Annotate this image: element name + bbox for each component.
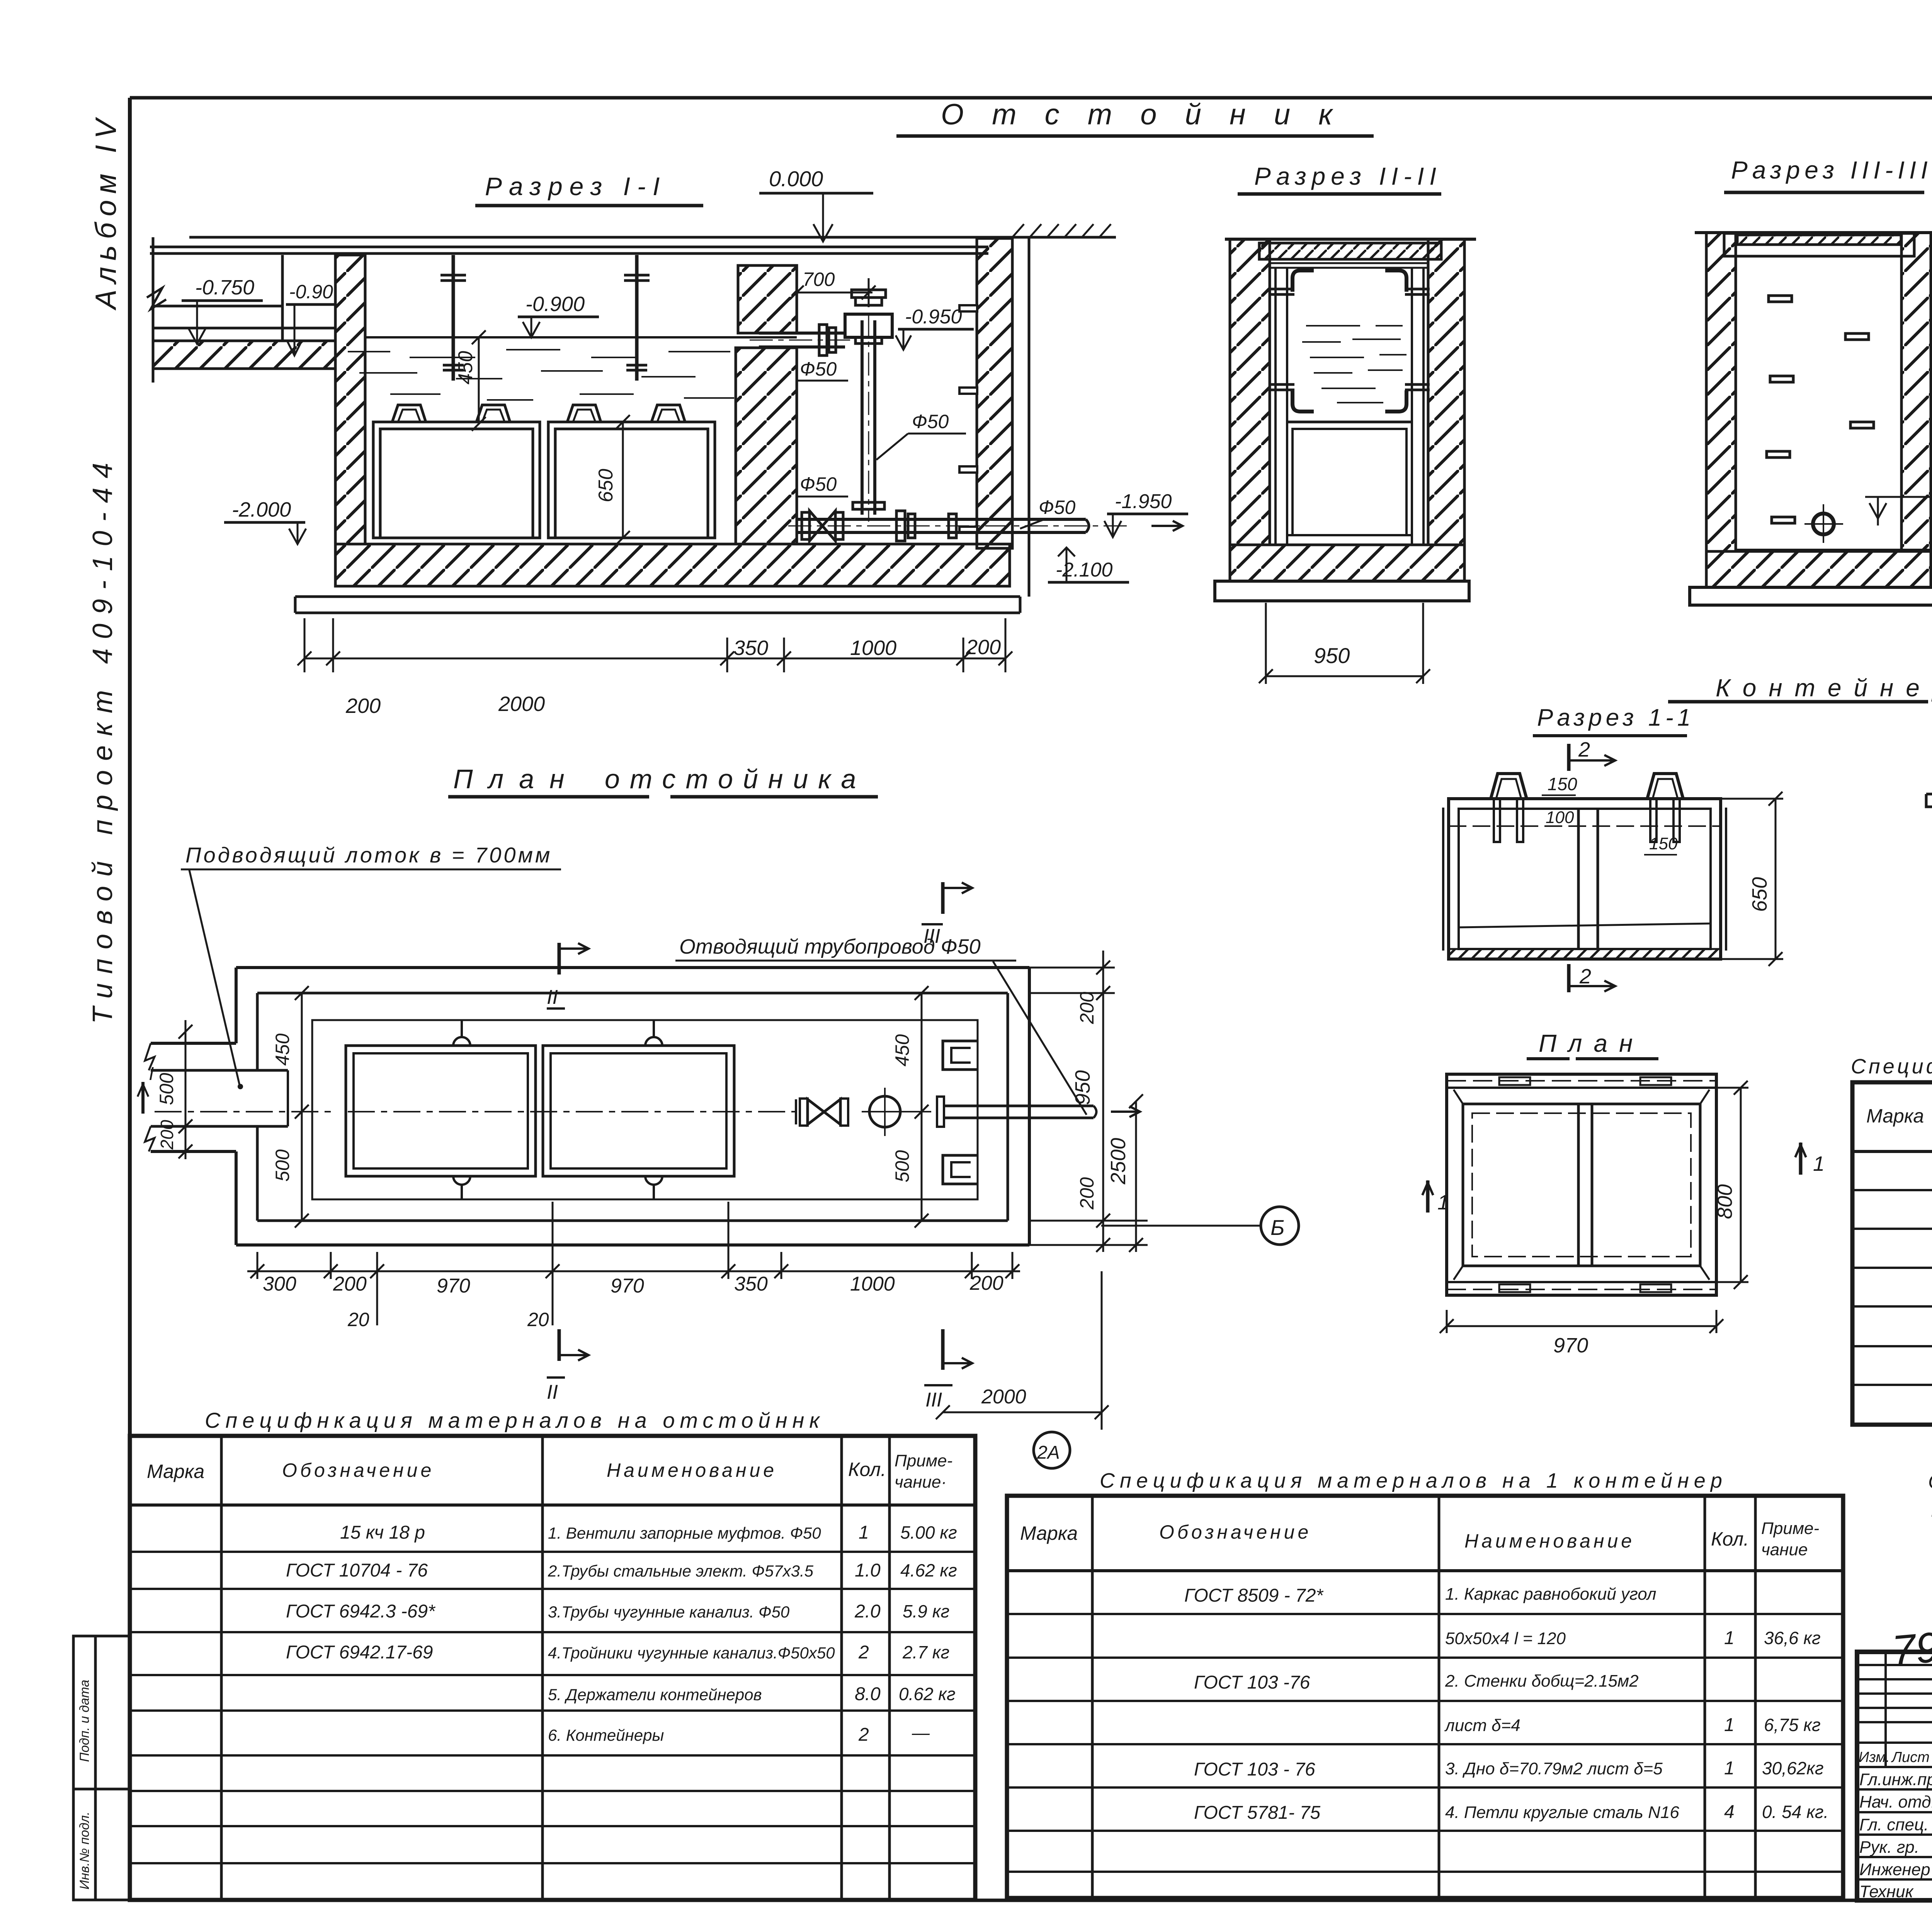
svg-text:Кол.: Кол.: [848, 1459, 886, 1480]
svg-text:лист δ=4: лист δ=4: [1444, 1716, 1520, 1735]
svg-text:200: 200: [157, 1120, 177, 1150]
svg-text:Техник: Техник: [1859, 1882, 1914, 1901]
svg-text:Гл. спец.: Гл. спец.: [1859, 1815, 1929, 1834]
svg-text:Разрез 1-1: Разрез 1-1: [1537, 704, 1694, 731]
svg-text:Приме-: Приме-: [1761, 1519, 1819, 1538]
svg-text:Ф50: Ф50: [1039, 497, 1076, 518]
svg-text:Ф50: Ф50: [912, 411, 949, 432]
svg-text:800: 800: [1713, 1184, 1736, 1219]
svg-text:4.62 кг: 4.62 кг: [900, 1560, 957, 1580]
svg-text:200: 200: [966, 636, 1001, 659]
svg-text:Специфнкация матерналов: Специфнкация матерналов на отстойннк: [205, 1408, 825, 1432]
svg-text:-0.90: -0.90: [289, 281, 333, 303]
svg-text:30,62кг: 30,62кг: [1762, 1758, 1824, 1778]
svg-text:Альбом IV: Альбом IV: [90, 113, 122, 311]
svg-text:970: 970: [611, 1275, 644, 1297]
svg-text:Подп. и дата: Подп. и дата: [77, 1680, 92, 1762]
svg-text:2000: 2000: [981, 1386, 1026, 1408]
svg-text:50х50х4 l = 120: 50х50х4 l = 120: [1445, 1629, 1566, 1648]
svg-text:Наименование: Наименование: [607, 1459, 777, 1481]
svg-text:36,6 кг: 36,6 кг: [1764, 1628, 1821, 1648]
svg-text:2: 2: [1579, 965, 1591, 988]
svg-text:Обозначение: Обозначение: [282, 1459, 434, 1481]
svg-text:0.62 кг: 0.62 кг: [899, 1684, 956, 1704]
svg-text:Разрез II-II: Разрез II-II: [1254, 162, 1442, 190]
svg-text:-1.950: -1.950: [1115, 490, 1172, 513]
svg-text:ГОСТ 103 - 76: ГОСТ 103 - 76: [1194, 1759, 1315, 1780]
svg-text:20: 20: [527, 1309, 549, 1330]
svg-text:4.Тройники чугунные канализ.Ф5: 4.Тройники чугунные канализ.Ф50х50: [548, 1644, 835, 1662]
svg-text:5.00 кг: 5.00 кг: [900, 1522, 957, 1543]
svg-text:III: III: [925, 1389, 942, 1411]
svg-text:450: 450: [454, 351, 477, 384]
svg-text:5.9 кг: 5.9 кг: [903, 1601, 949, 1621]
svg-text:—: —: [912, 1723, 930, 1743]
svg-text:150: 150: [1649, 834, 1678, 853]
svg-text:План: План: [453, 764, 580, 794]
svg-text:ГОСТ 103 -76: ГОСТ 103 -76: [1194, 1672, 1310, 1693]
svg-text:970: 970: [437, 1275, 470, 1297]
svg-text:450: 450: [891, 1034, 913, 1066]
svg-text:5. Держатели контейнеров: 5. Держатели контейнеров: [548, 1685, 762, 1704]
svg-text:2500: 2500: [1107, 1138, 1130, 1185]
svg-text:2.Трубы стальные элект. Ф57х: 2.Трубы стальные элект. Ф57х3.5: [548, 1562, 814, 1580]
svg-text:1: 1: [859, 1522, 869, 1543]
svg-text:-2.100: -2.100: [1056, 559, 1113, 581]
svg-text:Спецификация материалов на: Спецификация материалов на отстойный кол…: [1851, 1055, 1932, 1078]
svg-text:1000: 1000: [850, 636, 896, 660]
svg-text:Марка: Марка: [1020, 1522, 1078, 1544]
svg-text:1: 1: [1813, 1152, 1825, 1175]
svg-text:-2.000: -2.000: [232, 498, 291, 521]
svg-text:1000: 1000: [850, 1273, 895, 1295]
svg-text:Инженер: Инженер: [1859, 1860, 1930, 1879]
svg-text:200: 200: [345, 694, 381, 718]
svg-text:Разрез III-III: Разрез III-III: [1731, 156, 1932, 184]
svg-text:350: 350: [733, 636, 768, 660]
svg-text:ГОСТ 6942.3 -69*: ГОСТ 6942.3 -69*: [286, 1601, 435, 1622]
svg-text:ГОСТ 5781- 75: ГОСТ 5781- 75: [1194, 1803, 1320, 1823]
svg-text:500: 500: [891, 1150, 913, 1182]
svg-text:Подводящий лоток в = 700мм: Подводящий лоток в = 700мм: [185, 843, 552, 867]
svg-text:1: 1: [1437, 1191, 1449, 1214]
svg-text:Рук. гр.: Рук. гр.: [1859, 1838, 1919, 1857]
svg-text:План: План: [1539, 1029, 1644, 1057]
svg-text:Инв.№ подл.: Инв.№ подл.: [77, 1811, 92, 1889]
svg-text:-0.750: -0.750: [195, 276, 254, 299]
svg-text:0.000: 0.000: [769, 167, 823, 191]
svg-text:2000: 2000: [498, 692, 545, 716]
svg-text:Гл.инж.пр.: Гл.инж.пр.: [1859, 1770, 1932, 1789]
svg-text:200: 200: [969, 1272, 1003, 1294]
svg-text:Марка: Марка: [1866, 1105, 1924, 1127]
svg-text:1: 1: [1724, 1715, 1735, 1735]
svg-text:II: II: [547, 986, 558, 1009]
svg-text:III: III: [923, 925, 940, 947]
svg-text:1.0: 1.0: [855, 1560, 881, 1581]
svg-text:Ф50: Ф50: [800, 473, 837, 495]
svg-text:20: 20: [347, 1309, 369, 1330]
svg-text:Спецификация матерналов на 1: Спецификация матерналов на 1 контейнер: [1100, 1469, 1727, 1492]
svg-text:чание: чание: [1761, 1540, 1808, 1559]
svg-text:970: 970: [1553, 1334, 1588, 1357]
svg-text:Разрез I-I: Разрез I-I: [485, 172, 667, 201]
svg-text:950: 950: [1071, 1070, 1094, 1105]
svg-text:200: 200: [333, 1273, 367, 1295]
svg-text:отстойника: отстойника: [605, 764, 866, 794]
svg-text:2.0: 2.0: [854, 1601, 881, 1622]
svg-text:650: 650: [595, 469, 617, 502]
svg-text:0. 54 кг.: 0. 54 кг.: [1762, 1802, 1828, 1822]
svg-text:4: 4: [1724, 1802, 1735, 1822]
svg-text:6,75 кг: 6,75 кг: [1764, 1715, 1821, 1735]
svg-text:Типовой проект 409-10-44: Типовой проект 409-10-44: [87, 454, 118, 1024]
svg-text:3.Трубы чугунные канализ. Ф5: 3.Трубы чугунные канализ. Ф50: [548, 1603, 790, 1621]
svg-text:ГОСТ 10704 - 76: ГОСТ 10704 - 76: [286, 1560, 428, 1581]
svg-text:950: 950: [1314, 643, 1350, 668]
svg-text:500: 500: [156, 1073, 177, 1105]
svg-text:Строительная часть отсто: Строительная часть отстойника см. чертеж…: [1928, 1471, 1932, 1493]
svg-text:1. Каркас равнобокий угол: 1. Каркас равнобокий угол: [1445, 1585, 1656, 1604]
svg-text:150: 150: [1548, 774, 1577, 794]
svg-text:Изм.: Изм.: [1859, 1749, 1890, 1765]
svg-text:300: 300: [263, 1273, 296, 1295]
svg-text:1: 1: [1724, 1628, 1735, 1648]
svg-text:200: 200: [1076, 992, 1098, 1024]
svg-text:450: 450: [272, 1033, 293, 1066]
svg-text:2.7 кг: 2.7 кг: [902, 1642, 949, 1662]
svg-text:2: 2: [858, 1642, 869, 1663]
svg-text:ГОСТ 8509 - 72*: ГОСТ 8509 - 72*: [1184, 1585, 1323, 1606]
svg-text:1: 1: [1724, 1758, 1735, 1779]
svg-text:100: 100: [1546, 808, 1574, 827]
svg-text:Наименование: Наименование: [1464, 1530, 1635, 1552]
svg-text:Контейнер: Контейнер: [1716, 674, 1932, 702]
svg-text:Лист: Лист: [1891, 1749, 1930, 1765]
svg-text:500: 500: [272, 1149, 293, 1182]
svg-text:3. Дно δ=70.79м2 лист δ=5: 3. Дно δ=70.79м2 лист δ=5: [1445, 1759, 1663, 1778]
svg-text:700: 700: [803, 269, 835, 290]
svg-text:ГОСТ 6942.17-69: ГОСТ 6942.17-69: [286, 1642, 433, 1663]
svg-text:Марка: Марка: [147, 1461, 204, 1482]
svg-text:1. Вентили запорные муфтов. Ф5: 1. Вентили запорные муфтов. Ф50: [548, 1524, 821, 1542]
svg-text:О т с т о й н и к: О т с т о й н и к: [941, 98, 1342, 131]
svg-text:Б: Б: [1270, 1215, 1284, 1240]
svg-text:2: 2: [1578, 738, 1590, 761]
svg-text:Обозначение: Обозначение: [1159, 1521, 1311, 1543]
svg-text:Нач. отд.: Нач. отд.: [1859, 1793, 1932, 1811]
svg-text:650: 650: [1748, 877, 1771, 912]
svg-text:6. Контейнеры: 6. Контейнеры: [548, 1726, 664, 1744]
svg-text:I: I: [149, 1064, 154, 1084]
svg-text:350: 350: [734, 1273, 768, 1295]
svg-text:4. Петли круглые сталь N16: 4. Петли круглые сталь N16: [1445, 1803, 1679, 1822]
svg-text:Приме-: Приме-: [895, 1451, 952, 1470]
svg-text:чание·: чание·: [895, 1473, 947, 1492]
svg-text:2. Стенки δобщ=2.15м2: 2. Стенки δобщ=2.15м2: [1445, 1672, 1639, 1690]
svg-text:2А: 2А: [1037, 1442, 1060, 1463]
svg-text:2: 2: [858, 1725, 869, 1745]
svg-text:Кол.: Кол.: [1711, 1528, 1749, 1550]
svg-text:-0.900: -0.900: [526, 293, 585, 316]
svg-text:15 кч 18 р: 15 кч 18 р: [340, 1522, 425, 1543]
svg-text:-0.950: -0.950: [905, 306, 962, 328]
svg-text:8.0: 8.0: [855, 1684, 881, 1704]
svg-text:Ф50: Ф50: [800, 358, 837, 380]
svg-text:200: 200: [1076, 1177, 1098, 1210]
svg-text:II: II: [547, 1381, 558, 1403]
